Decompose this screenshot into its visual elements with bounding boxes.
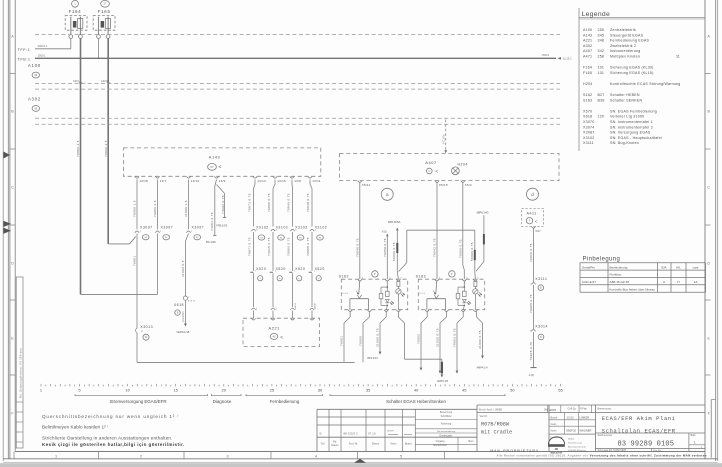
svg-text:R.Plan: R.Plan [580, 409, 588, 411]
svg-text:30091.1: 30091.1 [38, 44, 49, 48]
svg-text:<: < [280, 335, 283, 341]
svg-text:13/7: 13/7 [160, 179, 167, 183]
svg-text:X3070: X3070 [583, 120, 595, 124]
svg-text:Funktion: Funktion [610, 273, 622, 277]
svg-text:X3013: X3013 [140, 325, 153, 329]
svg-text:VERS:1/18: VERS:1/18 [176, 330, 189, 334]
svg-text:120: 120 [598, 115, 605, 119]
svg-text:Strichlierte Darstellung in an: Strichlierte Darstellung in anderen Auss… [42, 436, 173, 441]
svg-text:Erstfreigabe: Erstfreigabe [440, 434, 454, 437]
svg-text:4: 4 [315, 454, 317, 458]
svg-text:Vier.Nr.: Vier.Nr. [480, 415, 488, 418]
svg-text:35: 35 [366, 388, 371, 393]
svg-text:Bem.: Bem. [469, 440, 475, 443]
svg-text:Instrumentierung: Instrumentierung [610, 49, 641, 53]
svg-text:Diagnose: Diagnose [213, 399, 232, 404]
svg-text:13/11: 13/11 [312, 179, 321, 183]
svg-text:40: 40 [414, 388, 419, 393]
svg-text:X618: X618 [583, 115, 592, 119]
svg-text:X3102: X3102 [583, 136, 595, 140]
svg-text:X3087: X3087 [583, 131, 595, 135]
svg-text:D: D [11, 262, 14, 266]
svg-text:Twl: Twl [321, 443, 325, 446]
svg-text:13/18: 13/18 [139, 179, 148, 183]
svg-text:P: P [374, 272, 376, 276]
svg-text:V10: V10 [382, 229, 387, 233]
svg-text:258: 258 [598, 55, 605, 59]
svg-text:Aktiengesellschaft: Aktiengesellschaft [568, 445, 586, 448]
svg-text:2: 2 [140, 454, 142, 458]
svg-text:X570: X570 [583, 109, 592, 113]
svg-text:BP2:3/13: BP2:3/13 [367, 357, 378, 360]
svg-text:Sachnummer: Sachnummer [598, 434, 613, 437]
svg-text:79901: 79901 [340, 336, 344, 346]
svg-text:31000 0.5: 31000 0.5 [181, 260, 185, 277]
svg-text:79080 1.5: 79080 1.5 [132, 200, 136, 217]
svg-text:TFF:1: TFF:1 [18, 48, 31, 52]
svg-text:SN: Instrumententafel 1: SN: Instrumententafel 1 [610, 120, 653, 124]
svg-text:Bearb.: Bearb. [405, 443, 413, 446]
svg-text:D-80995 München: D-80995 München [568, 450, 587, 452]
svg-text:AB5.15.GZ.45: AB5.15.GZ.45 [610, 280, 630, 284]
svg-text:Nutzfahrzeuge: Nutzfahrzeuge [568, 441, 583, 444]
svg-text:X3097: X3097 [161, 225, 174, 229]
svg-text:1-(X): 1-(X) [529, 373, 535, 377]
svg-text:GB2F20: GB2F20 [566, 428, 577, 432]
svg-text:Stromversorgung EGAS/EFR: Stromversorgung EGAS/EFR [109, 399, 166, 404]
svg-text:2007: 2007 [550, 408, 557, 412]
svg-text:A407: A407 [583, 49, 592, 53]
svg-text:WAGNER: WAGNER [580, 428, 592, 432]
svg-text:A221: A221 [269, 325, 281, 330]
svg-text:C: C [707, 186, 710, 190]
svg-text:H: H [677, 280, 679, 284]
svg-text:79871 0.75: 79871 0.75 [248, 237, 252, 256]
svg-text:TFB:1: TFB:1 [18, 57, 31, 61]
svg-text:P: P [451, 272, 453, 276]
svg-text:101: 101 [598, 71, 605, 75]
svg-text:Kontrolle Bus heben über Nivea: Kontrolle Bus heben über Niveau [610, 288, 656, 292]
svg-text:1: 1 [55, 454, 57, 458]
svg-text:79900: 79900 [359, 336, 363, 346]
svg-text:Last: Last [693, 265, 699, 269]
svg-text:Ersch.-Ausf. i. W0B5: Ersch.-Ausf. i. W0B5 [479, 409, 503, 412]
svg-text:79908 0.75: 79908 0.75 [529, 294, 533, 313]
svg-text:MAN-PROPRIETARY: MAN-PROPRIETARY [490, 449, 539, 453]
svg-text:F164: F164 [583, 66, 592, 70]
svg-text:F164: F164 [69, 9, 82, 14]
svg-text:79042 0.75: 79042 0.75 [433, 238, 437, 257]
svg-text:Dat.auswanderung: Dat.auswanderung [437, 430, 456, 433]
svg-text:X3074: X3074 [583, 125, 595, 129]
svg-text:B: B [145, 335, 147, 339]
svg-text:Ers.für: Ers.für [654, 449, 662, 452]
svg-text:A411: A411 [527, 211, 537, 215]
svg-text:DE/ER: DE/ER [387, 431, 394, 433]
svg-text:SN: EGAS Fernbedienung: SN: EGAS Fernbedienung [610, 109, 657, 113]
svg-text:X520: X520 [256, 267, 266, 271]
svg-text:79846 0.75: 79846 0.75 [287, 193, 291, 212]
svg-text:BP2:11/5A: BP2:11/5A [388, 220, 400, 224]
svg-text:X3014: X3014 [535, 325, 548, 329]
svg-text:F165: F165 [98, 9, 111, 14]
svg-text:Legende: Legende [582, 11, 611, 18]
svg-text:10: 10 [125, 388, 130, 393]
svg-text:31000 0.75: 31000 0.75 [478, 330, 482, 349]
svg-text:X5/11: X5/11 [362, 183, 371, 187]
svg-text:79080 2.5: 79080 2.5 [153, 200, 157, 217]
svg-text:79902: 79902 [417, 334, 421, 344]
svg-text:d: d [531, 192, 534, 198]
svg-text:A411 E/17: A411 E/17 [582, 280, 596, 284]
svg-text:AMP4:1/5: AMP4:1/5 [437, 380, 449, 383]
svg-text:S163: S163 [416, 274, 426, 278]
svg-text:Sicherung EGAS (KL15): Sicherung EGAS (KL15) [610, 71, 654, 75]
svg-text:79040 0.75: 79040 0.75 [355, 238, 359, 257]
svg-text:X3102: X3102 [295, 225, 308, 229]
svg-text:A302: A302 [583, 44, 592, 48]
svg-text:50000 0.75: 50000 0.75 [470, 242, 474, 261]
svg-text:D: D [707, 262, 710, 266]
svg-text:83 99289 0105: 83 99289 0105 [618, 441, 675, 449]
svg-text:CAE-Zg: CAE-Zg [568, 408, 577, 411]
svg-text:(31000): (31000) [182, 311, 185, 322]
svg-text:20: 20 [222, 388, 227, 393]
svg-text:13/15: 13/15 [277, 179, 286, 183]
svg-text:<: < [218, 165, 221, 171]
svg-text:345: 345 [598, 33, 605, 37]
svg-text:Schaltplan ECAS/EFR: Schaltplan ECAS/EFR [602, 428, 676, 434]
svg-text:A143: A143 [583, 33, 592, 37]
svg-text:31000 1.5: 31000 1.5 [184, 200, 188, 217]
svg-text:ECAS/EFR Akim Plani: ECAS/EFR Akim Plani [602, 416, 676, 422]
svg-text:50: 50 [510, 388, 515, 393]
svg-text:74092 0.75: 74092 0.75 [221, 195, 225, 214]
svg-text:A302: A302 [28, 96, 41, 101]
svg-text:C: C [11, 186, 14, 190]
svg-text:57: 57 [210, 165, 214, 169]
svg-text:79903 0.75: 79903 0.75 [453, 328, 457, 347]
svg-text:15: 15 [173, 388, 178, 393]
svg-text:74015 0.75: 74015 0.75 [267, 237, 271, 256]
svg-text:SN: EGAS - Hauptschalttafel: SN: EGAS - Hauptschalttafel [610, 136, 662, 140]
svg-text:Änd.-Nr.: Änd.-Nr. [349, 443, 358, 446]
svg-text:342: 342 [598, 49, 605, 53]
svg-text:Kontrolleuchte ECAS Störung/Wa: Kontrolleuchte ECAS Störung/Warnung [610, 82, 681, 86]
svg-text:Multiplex Knoten: Multiplex Knoten [610, 55, 640, 59]
svg-text:A100: A100 [28, 63, 41, 68]
svg-text:X5/4: X5/4 [465, 183, 472, 187]
svg-text:B38: B38 [598, 98, 605, 102]
svg-text:M.A.N.: M.A.N. [568, 438, 575, 441]
svg-text:12.02: 12.02 [567, 416, 575, 420]
svg-text:Belirtilmeyen Kablo kesitleri: Belirtilmeyen Kablo kesitleri 1² ⁾ [42, 424, 108, 429]
svg-text:55: 55 [558, 388, 563, 393]
svg-text:79848 0.75: 79848 0.75 [306, 193, 310, 212]
svg-text:Norm: Norm [390, 443, 396, 446]
svg-text:Änderung: Änderung [441, 422, 452, 425]
svg-text:X3102: X3102 [256, 225, 269, 229]
svg-text:B: B [320, 432, 322, 436]
svg-text:13/13: 13/13 [257, 179, 266, 183]
svg-text:BAT: BAT [313, 302, 316, 308]
svg-text:79888 0.75: 79888 0.75 [306, 237, 310, 256]
svg-text:Sch-Lage:R1 70250 5905: Sch-Lage:R1 70250 5905 [598, 449, 627, 452]
svg-text:Fernbedienung EGAS: Fernbedienung EGAS [610, 39, 650, 43]
svg-text:A407: A407 [425, 160, 437, 165]
svg-text:Benennung: Benennung [440, 411, 453, 414]
svg-text:50000 0.75: 50000 0.75 [392, 242, 396, 261]
svg-text:A221: A221 [583, 39, 592, 43]
svg-text:Pinbelegung: Pinbelegung [583, 257, 621, 263]
svg-text:25: 25 [270, 388, 275, 393]
svg-text:X3111: X3111 [535, 277, 547, 281]
svg-text:Datum: Datum [331, 444, 338, 447]
svg-text:31000 0.75: 31000 0.75 [376, 328, 380, 347]
svg-text:Kesik çizgi ile gösterilen hat: Kesik çizgi ile gösterilen hatlar,bilgi … [42, 442, 185, 447]
svg-text:Schalter EGAS Heben/Senken: Schalter EGAS Heben/Senken [386, 399, 446, 404]
svg-text:79880 2.5: 79880 2.5 [76, 140, 80, 157]
svg-text:X520: X520 [315, 267, 325, 271]
svg-text:Alle Rechte vorbehalten gemäß: Alle Rechte vorbehalten gemäß ISO 16016.… [497, 454, 707, 458]
svg-text:Gerät/Pin: Gerät/Pin [582, 265, 595, 269]
svg-text:F165: F165 [583, 71, 592, 75]
svg-text:11: 11 [676, 55, 680, 59]
svg-text:X3102: X3102 [276, 225, 289, 229]
svg-text:Schalter SENKEN: Schalter SENKEN [610, 98, 642, 102]
svg-text:255: 255 [598, 28, 605, 32]
svg-text:SN: Bug-Knoten: SN: Bug-Knoten [610, 141, 639, 145]
svg-text:DB: DB [555, 449, 559, 451]
svg-text:X5/15: X5/15 [439, 183, 448, 187]
svg-text:LINKER: LINKER [580, 416, 590, 420]
svg-text:79886 0.75: 79886 0.75 [287, 237, 291, 256]
svg-text:A143: A143 [209, 155, 221, 160]
svg-text:I-CAN: I-CAN [441, 134, 445, 144]
svg-text:Schriftfeld: Schriftfeld [441, 415, 452, 418]
svg-text:79881: 79881 [133, 256, 137, 266]
svg-text:6/17: 6/17 [536, 229, 542, 233]
svg-text:FFB:1/93: FFB:1/93 [216, 223, 227, 227]
svg-text:Bezeichnung: Bezeichnung [610, 265, 628, 269]
svg-text:Steuergerät EGAS: Steuergerät EGAS [610, 33, 644, 37]
svg-text:H204: H204 [583, 82, 592, 86]
svg-text:Gepr.: Gepr. [551, 423, 557, 426]
svg-text:88 155/2.3: 88 155/2.3 [344, 432, 359, 436]
svg-text:30: 30 [318, 388, 323, 393]
svg-text:79860 2.5: 79860 2.5 [104, 140, 108, 157]
svg-text:Ba. Ursprungsformat: A3 180 m: Ba. Ursprungsformat: A3 180 mm [19, 348, 23, 398]
svg-text:-: - [334, 432, 335, 436]
svg-text:Fernbedienung: Fernbedienung [270, 399, 300, 404]
svg-text:3: 3 [226, 454, 228, 458]
svg-text:101: 101 [598, 66, 605, 70]
svg-text:79060 0.75: 79060 0.75 [529, 243, 533, 262]
svg-text:S162: S162 [339, 274, 349, 278]
svg-text:45: 45 [462, 388, 467, 393]
svg-text:79872 0.75: 79872 0.75 [248, 193, 252, 212]
svg-text:A471: A471 [583, 55, 592, 59]
svg-text:5: 5 [400, 454, 402, 458]
svg-text:15001: 15001 [38, 54, 46, 58]
svg-text:79050 0.75: 79050 0.75 [458, 239, 462, 258]
svg-text:S162: S162 [583, 93, 592, 97]
svg-text:<: < [435, 169, 438, 175]
svg-text:BG:1/28: BG:1/28 [206, 240, 216, 244]
svg-text:Vorgang: Vorgang [436, 440, 446, 443]
svg-text:X520: X520 [276, 267, 286, 271]
svg-text:S163: S163 [583, 98, 592, 102]
svg-text:Norm: Norm [551, 429, 557, 432]
svg-text:Zweitelektrik 2: Zweitelektrik 2 [610, 44, 636, 48]
svg-text:H/L: H/L [676, 265, 681, 269]
svg-text:15001: 15001 [542, 53, 550, 57]
svg-text:R07B/R08W: R07B/R08W [481, 421, 510, 427]
svg-text:<: < [535, 219, 538, 224]
svg-text:Zentralelektrik: Zentralelektrik [610, 28, 636, 32]
svg-text:348: 348 [598, 39, 605, 43]
svg-text:(W): (W) [544, 410, 548, 412]
svg-text:X3097: X3097 [192, 225, 205, 229]
svg-text:Querschnittsbezeichnung nur we: Querschnittsbezeichnung nur wenn ungleic… [42, 414, 179, 419]
svg-text:Benennung: Benennung [598, 407, 612, 411]
svg-text:Bearb: Bearb [551, 417, 558, 420]
svg-text:B27: B27 [598, 93, 605, 97]
svg-text:KL15:1: KL15:1 [563, 57, 572, 61]
svg-text:Blatt: Blatt [691, 434, 696, 437]
svg-text:07.10: 07.10 [368, 432, 376, 436]
svg-text:A100: A100 [583, 28, 592, 32]
svg-text:79050 0.75: 79050 0.75 [383, 238, 387, 257]
svg-text:X3102: X3102 [315, 225, 328, 229]
svg-text:SN: Versorgung EGAS: SN: Versorgung EGAS [610, 131, 651, 135]
svg-text:79908 0.75: 79908 0.75 [529, 342, 533, 361]
svg-text:13/12: 13/12 [191, 179, 200, 183]
svg-text:X618: X618 [174, 303, 184, 307]
svg-text:31000 0.75: 31000 0.75 [436, 328, 440, 347]
svg-text:X3111: X3111 [583, 141, 594, 145]
svg-text:74081 0.75: 74081 0.75 [210, 212, 214, 231]
svg-text:79895 0.75: 79895 0.75 [267, 193, 271, 212]
svg-text:Sicherung EGAS (KL30): Sicherung EGAS (KL30) [610, 66, 654, 70]
svg-text:a: a [386, 193, 389, 198]
svg-text:Schalter HEBEN: Schalter HEBEN [610, 93, 640, 97]
svg-text:übernommen: übernommen [433, 444, 447, 447]
svg-text:Verteiler Ltg 31000: Verteiler Ltg 31000 [610, 115, 644, 119]
svg-text:SN: Instrumententafel 3: SN: Instrumententafel 3 [610, 125, 653, 129]
svg-text:13/9: 13/9 [219, 179, 226, 183]
svg-text:SIG: SIG [295, 303, 297, 308]
svg-text:X520: X520 [295, 267, 305, 271]
svg-text:AMP4:1/4: AMP4:1/4 [477, 367, 489, 370]
svg-text:Datum: Datum [372, 443, 379, 446]
svg-text:X3097: X3097 [140, 225, 153, 229]
svg-text:H204: H204 [458, 162, 468, 166]
svg-text:68P8:1/43: 68P8:1/43 [477, 210, 489, 214]
svg-text:mit Cradle: mit Cradle [481, 430, 512, 436]
svg-text:13/8: 13/8 [294, 179, 301, 183]
